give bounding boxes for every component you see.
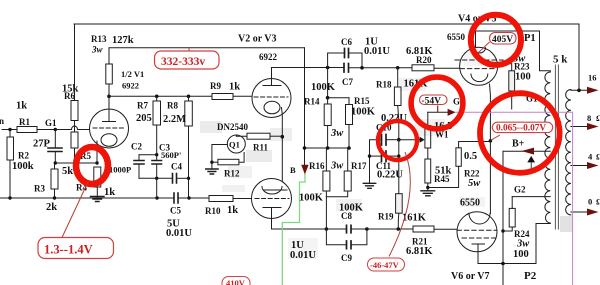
svg-text:n: n [0,116,4,126]
svg-text:Ω: Ω [596,113,600,123]
svg-text:6.81K: 6.81K [406,246,433,257]
svg-text:100K: 100K [311,82,336,93]
wire V3 cathode lead [271,208,273,230]
svg-text:R6: R6 [64,91,75,101]
svg-text:1k: 1k [227,205,238,216]
svg-text:0.01U: 0.01U [290,250,316,261]
capacitor C9 [347,241,352,249]
wire C3 bottom lead [156,164,158,178]
node R8 top [187,95,191,99]
svg-text:3w: 3w [91,45,104,55]
resistor R8 [185,101,193,126]
wire R2 bottom lead [9,160,11,198]
node rail R8 [187,196,190,199]
wire top feedback bus [74,24,579,90]
tube V1 heater circle [101,134,117,147]
svg-text:0.5: 0.5 [464,151,477,162]
red box 332-333v [188,47,190,52]
wire W1 top lead [427,112,429,125]
wire 8 ohm tap [571,126,587,128]
svg-text:R3: R3 [34,184,45,194]
wire R16 bottom lead [325,191,327,197]
tube V6 g1 dashes [457,229,497,231]
wire R15 top lead [348,98,350,105]
red callout line 405V [479,42,490,53]
tube V1 envelope [90,109,129,148]
svg-text:R17: R17 [351,161,367,171]
wire R14 feed [327,68,329,98]
svg-text:R10: R10 [205,206,221,216]
capacitor C5 [174,193,178,203]
wire R24 top lead [511,197,513,209]
resistor R45 [425,159,431,183]
svg-text:V6 or V7: V6 or V7 [451,271,490,282]
svg-text:R20: R20 [416,55,432,65]
wire R8 top lead [188,96,190,101]
wire B vertical [304,48,306,165]
svg-text:560P': 560P' [161,150,181,160]
wire R22 bottom lead [428,166,459,187]
node Q1 gate R12 [210,161,213,164]
wire R17 top lead [347,148,349,171]
svg-text:0: 0 [588,197,592,207]
svg-text:C7: C7 [342,77,353,87]
svg-text:332-333v: 332-333v [161,56,205,68]
wire R22 top lead [459,142,491,148]
wire C1 bottom lead [54,152,56,164]
tube V4 g2 dashes [455,59,503,61]
node C8 wire left [325,227,329,231]
svg-text:2k: 2k [46,202,57,213]
svg-text:0.22U: 0.22U [377,170,403,181]
svg-text:3w: 3w [330,161,344,172]
svg-text:R2: R2 [18,151,29,161]
tube V4 plate arc [474,48,486,53]
resistor R9 [212,94,233,100]
wire C11 left lead [370,155,382,157]
resistor R6 [71,101,78,121]
gray patch DN2540 [200,121,222,133]
node 16 ohm feedback [577,89,581,93]
svg-text:100k: 100k [12,161,34,172]
red callout line 0.065 [491,135,500,140]
wire V4 g2 to R23 [503,60,512,71]
tube V6 plate arc [469,214,490,225]
svg-text:100K: 100K [351,107,376,118]
svg-text:6550: 6550 [460,198,480,209]
wire G2 tap [512,196,550,198]
svg-text:R9: R9 [210,81,221,91]
node C2C3 top [155,153,158,156]
node R4 top [95,161,98,164]
tube V3 grid dashes [255,198,289,200]
capacitor C8 [347,225,352,233]
wire R10 to V3 grid [233,198,252,200]
svg-text:1k: 1k [16,101,27,112]
wire green feedback [282,175,305,285]
red oval 405V [490,33,517,45]
arrow G marker [448,109,456,116]
svg-text:C8: C8 [341,211,352,221]
wire C9 loop left [326,229,346,245]
capacitor C6 [345,49,349,58]
resistor R14 [324,104,331,126]
arrow A marker [528,157,534,169]
node C6 right [360,66,364,70]
node C11 left [368,154,371,157]
wire R3 bottom lead [54,189,56,198]
wire R21 to V6 grid [434,228,457,230]
arrow B marker [301,165,308,175]
svg-text:B: B [290,165,296,175]
node R22 V4 cathode [489,139,493,143]
node rail C2C3 [155,196,158,199]
wire C6 branch right [349,53,363,68]
wire C2 top lead [138,155,140,161]
tube V4 g1 dashes [460,68,496,70]
node R24 bottom [501,229,504,232]
svg-text:0.065--0.07V: 0.065--0.07V [496,124,546,134]
wire R7 bottom lead [156,125,158,155]
svg-text:127k: 127k [112,35,134,46]
wire V4 cathode down [489,84,492,141]
wire R5 bottom lead [74,148,76,163]
wire rail right of C5 [178,197,209,199]
wire R45 ground stem [427,183,429,191]
wire magenta annotation [456,112,573,285]
svg-text:R1: R1 [19,117,30,127]
svg-text:100K: 100K [299,193,324,204]
resistor R5 [71,132,78,148]
wire B+ vertical [502,151,504,285]
svg-text:R11: R11 [253,143,269,153]
resistor R23 [509,71,515,91]
svg-text:2.2M: 2.2M [163,114,186,125]
wire R9 plate wire [109,95,252,97]
node C2C3 bottom [155,177,158,180]
svg-text:R16: R16 [309,161,325,171]
resistor R21 [413,226,434,232]
wire R4 ground stem [96,187,98,198]
wire R15 bottom lead [348,125,350,149]
wire C9 loop right [351,229,367,245]
wire R7 top lead [156,96,158,101]
wire C11 right lead [386,155,399,157]
svg-text:C2: C2 [131,142,142,152]
svg-text:R45: R45 [434,174,450,184]
wire ground rail [0,197,174,199]
wire C1 top lead [54,130,56,149]
svg-text:5w: 5w [468,178,481,189]
wire crossover hop [72,126,78,130]
node R15R17 [347,146,351,150]
node R8 C4 [187,177,190,180]
red oval -46-47V [368,258,405,271]
wire C7 right [349,67,413,69]
transformer primary winding [545,72,550,223]
svg-text:5k: 5k [62,166,73,177]
resistor R12 [218,159,239,165]
wire V2 plate to C6C7 [272,67,345,69]
transformer core [555,65,558,229]
wire R16R17 to grid wire [325,197,327,229]
svg-text:100: 100 [513,249,529,260]
wire R8 bottom lead [188,126,190,198]
node C11 right [397,154,400,157]
capacitor C1 27P [48,148,62,152]
resistor R18 [394,87,401,106]
red oval -54V [437,106,439,113]
svg-text:R24: R24 [514,229,530,239]
ground R45 [421,191,435,196]
svg-text:3w: 3w [516,239,530,250]
tube V3 cathode bar [263,207,281,209]
wire 4 ohm tap [571,165,587,167]
node G1 [54,128,57,131]
svg-text:1k: 1k [104,187,115,198]
wire C10 right lead [386,139,399,141]
ground Q1 R12 [206,169,218,174]
wire R6 top lead [74,24,76,101]
wire R12 left lead [212,161,218,163]
svg-text:410V: 410V [226,278,246,285]
wire R14 top lead [327,98,329,104]
svg-text:405V: 405V [492,35,513,45]
capacitor C11 [382,151,387,162]
node rail R2 [8,196,11,199]
wire W1 wiper [399,139,420,141]
tube V6 g2 dashes [462,237,496,239]
tube V3 plate bar [264,189,288,191]
tube V6 envelope [457,212,497,252]
svg-text:27P: 27P [33,139,51,150]
wire V6 cathode bottom run [478,224,550,264]
red oval 0.065--0.07V [492,122,552,132]
resistor R16 [323,171,330,191]
red ring B+ [480,93,560,173]
svg-text:0.01U: 0.01U [364,46,390,57]
capacitor C10 [382,135,387,146]
svg-text:Q1: Q1 [229,140,240,150]
node R19 bottom [397,227,401,231]
wire input [2,129,90,131]
svg-text:R18: R18 [376,80,392,90]
wire -54V G feed [428,111,448,113]
node B-line mid [303,146,307,150]
resistor R2 [7,137,14,160]
resistor R1 [17,127,37,133]
svg-text:G1: G1 [45,118,57,128]
node rail R3 [53,196,56,199]
tube V1 grid dashes [93,127,125,129]
svg-text:6922: 6922 [122,81,139,91]
wire B+ tap [503,150,550,152]
resistor R20 [412,65,434,71]
resistor R4 [94,167,101,187]
svg-text:R14: R14 [304,97,320,107]
resistor R10 [209,196,233,202]
wire C2C3 top bus [139,154,157,156]
svg-text:1000P: 1000P [109,165,131,175]
resistor R24 [509,208,515,227]
svg-text:G2: G2 [514,185,526,195]
svg-text:R19: R19 [378,212,394,222]
svg-text:-54V: -54V [422,96,442,106]
svg-text:R21: R21 [412,237,428,247]
wire Q1 gate [212,145,227,163]
wire C4 right lead [177,177,189,179]
resistor R11 [247,133,270,139]
resistor R17 [344,171,351,191]
ground C11 [363,183,375,188]
svg-text:-46-47V: -46-47V [370,260,400,270]
arrow 0 ohm [587,209,599,216]
wire R19 chain [398,140,400,194]
ground R4 [91,197,105,202]
svg-text:V2 or V3: V2 or V3 [238,34,277,45]
svg-text:Ω: Ω [596,152,600,162]
wire R20 to V4 grid [434,67,460,69]
wire 16 ohm tap [571,89,587,91]
wire cathode node [55,162,97,164]
wire W1 to R45 [427,148,429,159]
tube V1 plate bar [103,121,116,123]
svg-text:P2: P2 [524,270,537,282]
red callout line -46-47V [389,152,410,257]
node R22 ground join [426,186,429,189]
tube V2 heater circle [264,101,280,114]
tube V2 envelope [252,79,291,118]
svg-text:100: 100 [515,72,531,83]
svg-text:8: 8 [587,113,591,123]
red ring 405V [471,15,521,65]
tube V2 grid dashes [254,96,288,98]
wire R3 top lead [54,163,56,169]
svg-text:R15: R15 [354,96,370,106]
node R14R16 [326,146,330,150]
capacitor C7 [344,64,349,73]
wire C2C3 node to rail [156,178,158,198]
svg-text:C6: C6 [341,37,352,47]
arrow B+ marker [522,148,535,155]
wire R2 top lead [9,130,11,138]
wire C2C3 bottom bus [139,177,173,179]
node R7 top [155,95,159,99]
red ring R5 cathode [76,147,108,184]
wire C2 bottom lead [138,164,140,178]
svg-text:R12: R12 [224,169,240,179]
node C10 right [397,138,401,142]
svg-text:G: G [453,97,460,107]
wire R12 right to Q1 source [239,153,244,163]
wire V4 plate top run [476,31,551,72]
svg-text:1.3--1.4V: 1.3--1.4V [44,243,93,257]
node R18 top [396,66,400,70]
wire C11 ground stem [369,156,371,183]
wire R14 bottom lead [327,126,329,149]
arrow 8 ohm [587,123,599,130]
wire V4 cathode to V6 plate [489,141,491,214]
node R11 right [281,135,285,139]
svg-text:R7: R7 [137,101,148,111]
wire V6 cathode lead [477,244,479,264]
node C9 right [365,227,369,231]
arrow 4 ohm [587,162,599,169]
capacitor C3 560P [152,161,162,165]
svg-text:5 k: 5 k [553,54,568,66]
transformer secondary winding [566,90,571,215]
red ring -54V [411,77,463,129]
svg-text:R23: R23 [514,62,530,72]
svg-text:6922: 6922 [259,52,278,62]
wire V3 cathode to C8 [272,228,347,230]
svg-text:16: 16 [588,73,597,83]
node R14 top [326,96,330,100]
svg-text:3w: 3w [330,128,344,139]
resistor R15 [346,105,353,125]
resistor R22 [456,148,461,167]
resistor R13 [106,64,113,84]
node R2 top [8,128,11,131]
wire Q1 drain stub [236,135,247,136]
wire R14R15 top link [328,97,349,99]
wire R18 lead [397,68,399,87]
wire 0 ohm tap [571,211,587,213]
red callout line 1.3V [62,182,88,238]
node V1 plate / R9 [107,95,111,99]
wire V1 cathode lead [96,141,98,163]
arrow 16 ohm [587,87,599,94]
svg-text:B+: B+ [512,139,525,150]
wire R18 bottom lead [398,106,399,140]
svg-text:DN2540: DN2540 [217,122,248,132]
wire R6-R5 lead [74,121,76,133]
wire R11 right lead [270,135,282,137]
wire mid node B row [305,147,350,149]
resistor R19 [396,194,403,214]
wire V4 plate lead [475,31,477,48]
wire C10 left loop [370,140,382,156]
tube V3 envelope [252,179,292,219]
svg-text:0.01U: 0.01U [166,228,192,239]
wire R24 bottom lead [503,227,512,231]
svg-text:1/2 V1: 1/2 V1 [121,69,144,79]
svg-text:R8: R8 [167,101,178,111]
resistor R7 [153,101,161,125]
wire R19 bottom lead [397,213,400,229]
node C6C7 left [326,66,330,70]
red box 1.3--1.4V [38,238,114,259]
wire C3 top lead [156,155,158,161]
wire R16 top lead [325,148,327,171]
wire R23 bottom lead [511,91,513,109]
wire R13 top to B line [109,48,305,64]
wire V2 plate lead [271,68,273,86]
svg-text:205: 205 [136,113,152,124]
tube V4 cathode arc [471,74,488,82]
svg-text:Ω: Ω [596,197,600,207]
red ring C10 [378,121,417,160]
arrow W1 wiper head [420,137,425,143]
svg-text:P1: P1 [524,33,536,44]
tube V6 cathode bar [472,243,485,245]
node C1-R3 [54,161,57,164]
capacitor C2 1000P [134,161,144,165]
red oval 410V [222,277,250,285]
wire V2 cathode chain [281,108,284,182]
tube V2 plate bar [263,85,281,87]
tube V3 heater arc [262,187,282,195]
